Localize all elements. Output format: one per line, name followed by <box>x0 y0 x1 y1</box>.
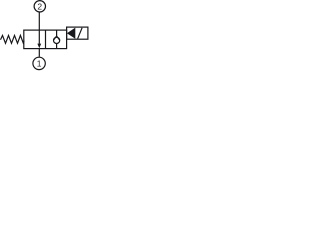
solenoid slash <box>78 28 83 39</box>
poppet stem top <box>56 30 58 36</box>
poppet seat <box>53 36 59 40</box>
valve envelope (2-position body) <box>24 30 67 48</box>
solenoid box <box>67 27 88 39</box>
port node 2 label <box>34 1 45 12</box>
port node 1 label <box>33 57 45 69</box>
wire from valve to port 1 <box>38 49 40 57</box>
poppet stem bottom <box>56 44 58 49</box>
solenoid coil triangle <box>67 28 75 39</box>
poppet ball <box>54 37 60 43</box>
position divider <box>45 30 47 48</box>
return spring <box>1 35 25 43</box>
svg-text:2: 2 <box>37 1 42 11</box>
svg-text:1: 1 <box>37 58 42 68</box>
flow arrow (open position) <box>37 30 41 48</box>
wire from port 2 to valve <box>38 13 40 31</box>
